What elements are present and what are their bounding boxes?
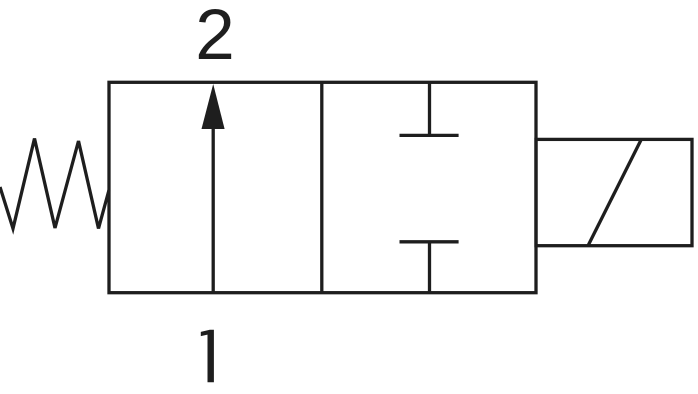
svg-text:2: 2 — [195, 0, 235, 75]
